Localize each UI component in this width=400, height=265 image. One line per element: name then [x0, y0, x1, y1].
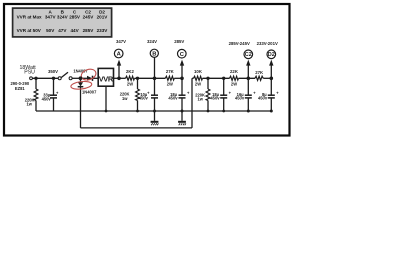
wire 10u cap branch	[154, 78, 156, 95]
node A terminal	[114, 39, 126, 66]
diode D1 1N4007 horizontal	[87, 76, 93, 81]
svg-text:233V: 233V	[97, 28, 109, 33]
wire 16u cap branch	[247, 78, 249, 95]
wire 33u cap branch	[53, 78, 55, 95]
resistor 220K 1w bleeder 1	[25, 89, 38, 107]
node C2 terminal	[229, 41, 253, 65]
svg-text:350V: 350V	[48, 69, 58, 74]
annotation red ellipse around D1	[80, 67, 97, 81]
wire 2K2 to 27K (nodes B)	[135, 77, 166, 79]
wire VVR output to 2K2	[114, 77, 126, 79]
node C terminal	[174, 39, 186, 66]
node D2 terminal	[257, 41, 278, 65]
wire left bleeder branch	[35, 78, 37, 89]
wire bleeder 2 branch	[137, 78, 139, 89]
svg-text:EZ81: EZ81	[15, 86, 26, 91]
wire 27K to node D2	[263, 77, 271, 79]
svg-text:27K: 27K	[166, 69, 175, 74]
wire vertical diode to bypass loop	[80, 87, 82, 128]
junction dots	[34, 76, 273, 112]
border frame	[4, 4, 290, 136]
resistor 10K 2W	[194, 69, 203, 86]
capacitor 10u 450v	[139, 91, 158, 101]
VVR box U1	[98, 68, 114, 86]
wire node D2 arrow stem	[270, 65, 272, 79]
svg-text:B: B	[152, 51, 156, 57]
svg-text:22K: 22K	[230, 69, 239, 74]
svg-text:245V: 245V	[83, 15, 95, 20]
svg-text:285V: 285V	[174, 39, 184, 44]
wire 8u cap branch	[270, 78, 272, 95]
wire node B stem	[154, 57, 156, 78]
ground symbol 1	[151, 111, 159, 125]
voltage table	[13, 8, 112, 37]
wire node A arrow stem	[118, 65, 120, 79]
svg-text:VVR at 50V: VVR at 50V	[17, 28, 42, 33]
svg-text:285V-245V: 285V-245V	[229, 41, 250, 46]
svg-text:VVR at Max: VVR at Max	[17, 15, 42, 20]
wire 27K to node C	[174, 77, 182, 79]
resistor 27K 2W	[165, 69, 174, 86]
switch SW1	[58, 72, 72, 80]
svg-text:324V: 324V	[57, 15, 69, 20]
svg-text:285V: 285V	[69, 15, 81, 20]
PSU terminal	[30, 77, 33, 80]
wire bypass loop up to 10K	[191, 78, 193, 128]
svg-text:285V: 285V	[83, 28, 95, 33]
svg-text:1N4007: 1N4007	[73, 68, 88, 73]
svg-text:50V: 50V	[46, 28, 55, 33]
wire main rail from PSU terminal to switch	[31, 77, 58, 79]
wire bleeder 3 branch	[207, 78, 209, 89]
svg-text:450v: 450v	[139, 96, 149, 101]
svg-text:44V: 44V	[71, 28, 80, 33]
wire switch to raw node to diode	[72, 77, 87, 79]
svg-text:D2: D2	[268, 52, 275, 58]
wire bypass loop bottom	[81, 127, 193, 129]
svg-text:324V: 324V	[147, 39, 157, 44]
wire diode to VVR input	[93, 77, 98, 79]
svg-text:450v: 450v	[42, 96, 52, 101]
svg-text:1w: 1w	[198, 96, 204, 101]
ground symbol 2	[178, 111, 186, 125]
resistor 27K second	[255, 70, 264, 81]
wire node C2 arrow stem	[247, 65, 249, 79]
node B terminal	[147, 39, 158, 58]
svg-text:450v: 450v	[210, 96, 220, 101]
svg-text:2K2: 2K2	[126, 69, 134, 74]
annotation red ellipse around D2	[70, 80, 92, 90]
resistor 2K2 2W	[126, 69, 135, 86]
svg-text:2W: 2W	[167, 82, 173, 87]
capacitor 18u 450v	[168, 91, 190, 101]
svg-text:PSU: PSU	[24, 70, 35, 76]
svg-text:450v: 450v	[235, 96, 245, 101]
svg-text:27K: 27K	[255, 70, 264, 75]
svg-text:2W: 2W	[127, 82, 133, 87]
resistor 22K 2W	[230, 69, 239, 86]
svg-text:450v: 450v	[258, 96, 268, 101]
svg-text:1N4007: 1N4007	[82, 89, 97, 94]
svg-text:10K: 10K	[194, 69, 203, 74]
svg-text:1w: 1w	[27, 102, 33, 107]
resistor 220K 1w bleeder 3	[195, 89, 210, 101]
svg-text:C2: C2	[245, 52, 252, 58]
wire 10K to 22K	[203, 77, 230, 79]
wire ground bus bottom rail	[36, 110, 271, 112]
wire 18u cap 2 branch	[223, 78, 225, 95]
svg-text:233V-201V: 233V-201V	[257, 41, 278, 46]
capacitor 8u 450v	[258, 91, 279, 101]
capacitor 16u 450v	[235, 91, 256, 101]
svg-text:1w: 1w	[122, 96, 128, 101]
svg-text:2W: 2W	[231, 82, 237, 87]
wire node C arrow stem	[181, 65, 183, 79]
svg-text:47V: 47V	[58, 28, 67, 33]
resistor 220K 1w bleeder 2	[120, 89, 140, 101]
wire raw node down to vertical diode	[80, 78, 82, 82]
capacitor 33u 450v	[42, 91, 59, 102]
svg-text:347V: 347V	[116, 39, 126, 44]
svg-text:201V: 201V	[97, 15, 109, 20]
capacitor 18u 450v second	[210, 91, 231, 101]
svg-text:347V: 347V	[45, 15, 57, 20]
diode D2 1N4007 vertical	[78, 82, 84, 86]
wire VVR ground pin	[105, 86, 107, 111]
svg-text:VVR: VVR	[99, 75, 114, 84]
wire 22K to 27K (node C2)	[239, 77, 256, 79]
svg-text:2W: 2W	[195, 82, 201, 87]
wire 18u cap branch	[181, 78, 183, 95]
svg-text:450v: 450v	[168, 96, 178, 101]
